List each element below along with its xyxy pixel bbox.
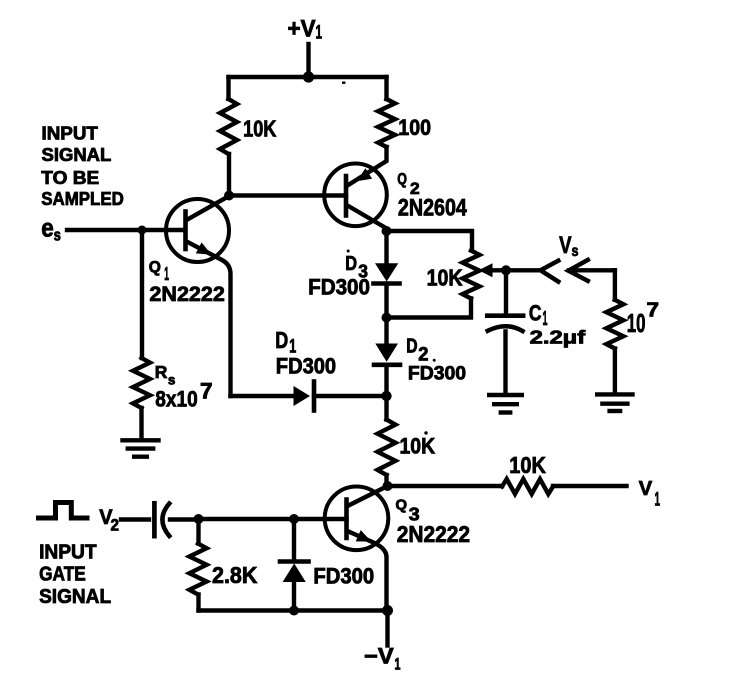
svg-text:V: V	[559, 232, 572, 259]
svg-text:2N2222: 2N2222	[149, 282, 225, 306]
svg-text:10: 10	[627, 310, 646, 338]
svg-text:2.2μf: 2.2μf	[530, 326, 587, 347]
svg-text:TO BE: TO BE	[41, 167, 99, 188]
svg-text:SIGNAL: SIGNAL	[42, 144, 112, 165]
svg-text:2N2604: 2N2604	[398, 194, 468, 221]
svg-text:Q: Q	[397, 171, 407, 188]
svg-text:SAMPLED: SAMPLED	[41, 188, 124, 209]
svg-text:FD300: FD300	[276, 354, 336, 379]
svg-text:D: D	[275, 327, 288, 353]
svg-text:Q: Q	[149, 259, 161, 276]
svg-text:D: D	[406, 335, 417, 358]
svg-text:100: 100	[398, 115, 431, 140]
svg-text:10K: 10K	[427, 264, 463, 290]
svg-text:D: D	[345, 252, 357, 275]
svg-text:10K: 10K	[509, 452, 546, 478]
svg-text:Q: Q	[396, 497, 408, 514]
svg-text:V: V	[639, 478, 653, 500]
svg-text:10K: 10K	[400, 434, 436, 459]
svg-text:+V: +V	[288, 15, 316, 42]
svg-text:e: e	[41, 213, 54, 243]
svg-text:7: 7	[647, 300, 660, 322]
svg-text:8x10: 8x10	[155, 387, 197, 412]
svg-text:s: s	[572, 243, 579, 260]
svg-text:2N2222: 2N2222	[397, 521, 470, 547]
svg-text:−V: −V	[364, 644, 394, 669]
svg-text:FD300: FD300	[308, 274, 370, 299]
svg-text:1: 1	[395, 656, 401, 674]
svg-text:7: 7	[200, 379, 213, 404]
svg-text:C: C	[529, 300, 542, 325]
svg-text:2.8K: 2.8K	[212, 562, 258, 588]
svg-text:GATE: GATE	[39, 562, 86, 585]
svg-text:SIGNAL: SIGNAL	[39, 585, 111, 608]
svg-text:1: 1	[316, 23, 323, 44]
svg-text:FD300: FD300	[408, 362, 466, 384]
svg-text:INPUT: INPUT	[42, 123, 99, 144]
svg-text:R: R	[155, 362, 168, 382]
svg-text:10K: 10K	[243, 116, 276, 142]
svg-text:2: 2	[111, 516, 120, 535]
svg-text:1: 1	[655, 490, 661, 511]
svg-text:FD300: FD300	[313, 564, 374, 589]
svg-text:s: s	[54, 226, 61, 245]
svg-text:INPUT: INPUT	[39, 540, 97, 563]
svg-text:s: s	[168, 372, 176, 388]
